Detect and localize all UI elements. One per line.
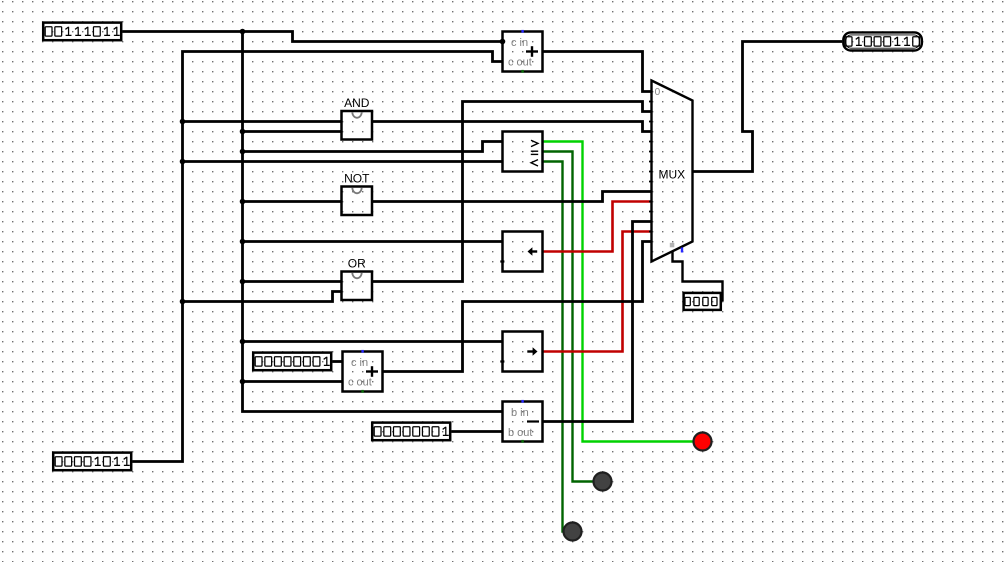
wire comparator gt output to red LED (bright green, value 1) xyxy=(543,142,703,442)
svg-text:b in: b in xyxy=(511,407,529,419)
junction node at adder U1 input A xyxy=(500,39,506,45)
junction node B rail to comparator in2 xyxy=(180,159,186,165)
wire net A branch to comparator input 1 xyxy=(243,142,503,152)
wire NOT gate output to MUX input 10 xyxy=(373,192,652,202)
junction node B rail to AND in1 xyxy=(180,119,186,125)
junction node A rail top xyxy=(240,29,246,35)
wire constant 2 to subtractor input B xyxy=(452,430,503,433)
wire MUX output to output pin xyxy=(693,42,843,172)
wire subtractor output to MUX input 13 xyxy=(543,222,652,422)
constant pin C1 00000001 xyxy=(252,351,332,371)
output pin 01000110 xyxy=(842,31,923,51)
OR gate xyxy=(342,257,373,301)
adder U2 (increment) xyxy=(343,350,383,393)
wire OR gate output to MUX input 2 xyxy=(373,102,652,282)
svg-text:b out: b out xyxy=(508,427,532,439)
wire net B branch to AND gate input 1 xyxy=(183,120,342,123)
wire net A branch to shifter SHR input xyxy=(243,340,503,343)
shifter SHL xyxy=(500,232,542,272)
svg-text:0: 0 xyxy=(655,87,661,98)
AND gate xyxy=(342,96,373,140)
wire net B branch to comparator input 2 xyxy=(183,160,503,163)
input pin A 00111011 xyxy=(42,21,122,41)
junction node A rail to SHL in xyxy=(240,239,246,245)
shifter SHR xyxy=(500,332,542,372)
svg-text:MUX: MUX xyxy=(659,168,686,182)
input pin B 00001011 xyxy=(52,451,132,471)
wire select pin 0000 to MUX select xyxy=(673,252,723,302)
svg-text:c in: c in xyxy=(511,37,528,49)
junction node A rail to AND in2 xyxy=(240,129,246,135)
wire adder U1 sum output to MUX input 0 xyxy=(543,52,652,92)
constant pin C2 00000001 xyxy=(371,421,451,441)
svg-text:c out: c out xyxy=(508,57,532,69)
wire comparator eq output to LED D2 (dark green, value 0) xyxy=(543,152,603,482)
junction node A rail to OR in1 xyxy=(240,279,246,285)
svg-text:AND: AND xyxy=(344,96,370,110)
wire shifter SHR output to MUX input 14 (red, error) xyxy=(543,232,652,352)
wire comparator lt output to LED D3 (dark green, value 0) xyxy=(543,162,573,532)
LED D1 (lit red) xyxy=(694,433,712,451)
junction node A rail to adder U2 xyxy=(240,379,246,385)
subtractor U4 xyxy=(503,400,543,443)
wire shifter SHL output to MUX input 11 (red, error) xyxy=(543,202,652,252)
wire net A: vertical rail x=242 down to subtractor row xyxy=(243,32,503,412)
junction node A rail to SHR in xyxy=(240,339,246,345)
select pin 0000 xyxy=(682,292,722,311)
comparator U3 xyxy=(503,132,543,172)
MUX U5 xyxy=(649,81,693,262)
svg-text:c in: c in xyxy=(351,357,368,369)
adder U1 xyxy=(503,30,543,73)
svg-text:OR: OR xyxy=(348,257,366,271)
wire adder U2 (increment) output to MUX input 15 xyxy=(383,242,652,372)
wire net A branch to adder U2 input B xyxy=(243,380,343,383)
wire net A branch to OR gate input 1 xyxy=(243,280,342,283)
wire net A branch to AND gate input 2 xyxy=(243,130,342,133)
wire constant 1 to adder U2 input A xyxy=(333,360,343,363)
svg-text:NOT: NOT xyxy=(344,172,370,186)
wire net A branch to NOT gate input xyxy=(243,200,342,203)
svg-text:c out: c out xyxy=(348,377,372,389)
wire net B: input B up rail x=183 to adder U1 input B xyxy=(133,52,503,462)
junction node B rail to OR in2 xyxy=(180,299,186,305)
NOT gate xyxy=(342,172,373,216)
LED D2 (off) xyxy=(594,473,612,491)
wire AND gate output to MUX input 4 xyxy=(373,122,652,132)
wire net B branch to OR gate input 2 xyxy=(183,292,342,302)
junction node A rail to comparator in1 xyxy=(240,149,246,155)
LED D3 (off) xyxy=(564,523,582,541)
junction node A rail to NOT in xyxy=(240,199,246,205)
wire net A: input A to adder U1 input xyxy=(123,32,503,42)
wire net A branch to shifter SHL input xyxy=(243,240,503,243)
